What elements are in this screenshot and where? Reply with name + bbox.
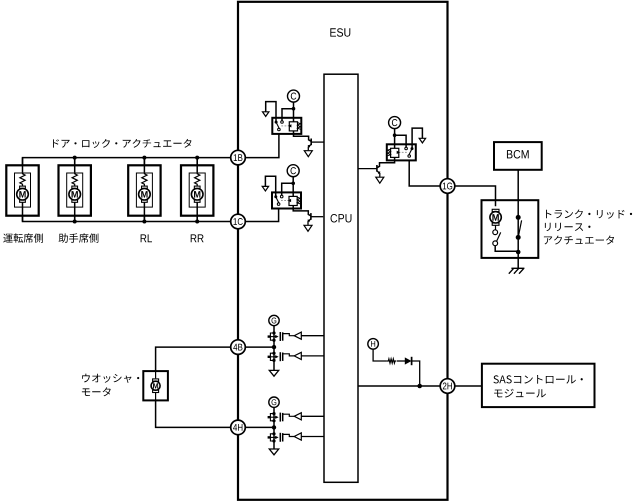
wire: relay K1 coil supply from C xyxy=(282,102,294,122)
relay K3 case xyxy=(387,144,416,160)
wire: M4 motor to bottom bus xyxy=(196,202,198,221)
trunk terminal (top) xyxy=(516,215,521,220)
transistor at relay K2 xyxy=(307,213,323,225)
connector 1G xyxy=(440,179,455,194)
junction 4B node xyxy=(272,345,276,349)
label RR xyxy=(191,234,204,242)
connector 4H label xyxy=(233,424,242,431)
washer motor M xyxy=(151,379,160,393)
washer motor M letter xyxy=(153,383,158,388)
trunk lid release actuator case xyxy=(482,200,539,258)
trunk terminal (bottom) xyxy=(516,250,521,255)
connector 1B xyxy=(231,150,246,165)
trunk switch blade xyxy=(518,220,521,237)
wire: relay K3 coil to transistor xyxy=(377,157,395,167)
wire: H to resistor xyxy=(373,349,387,361)
trunk terminal (middle) xyxy=(516,235,521,240)
gate buffer U2 xyxy=(283,352,324,359)
door lock actuator M4: outer case xyxy=(181,165,213,215)
relay K1 coil xyxy=(288,122,301,131)
door lock actuator M1: inner box xyxy=(15,173,31,207)
wire: G group 4B vertical xyxy=(273,326,275,371)
wire: door lock top bus to 1B xyxy=(23,158,232,165)
junction on top bus xyxy=(73,156,77,160)
ESU enclosure box xyxy=(238,2,448,500)
terminal C at relay K2 label xyxy=(290,167,295,174)
junction at 2H branch xyxy=(417,384,422,389)
SAS control module box xyxy=(482,364,595,407)
wire: diode to 2H node xyxy=(411,361,419,386)
door lock actuator M2: motor M letter xyxy=(72,191,78,198)
door lock actuator M3: inner box xyxy=(136,173,152,207)
label BCM xyxy=(507,150,529,159)
terminal G at 4H group label xyxy=(272,399,277,405)
connector 4B xyxy=(231,340,246,355)
chassis arrow under transistor K1 xyxy=(304,151,312,157)
chassis arrow under 4H group xyxy=(269,449,278,455)
door lock actuator M4: inner box xyxy=(189,173,205,207)
relay K2 contact pins xyxy=(274,195,283,205)
diode D1 xyxy=(405,357,412,365)
terminal H label xyxy=(371,341,375,347)
connector 1C label xyxy=(233,218,242,225)
wire: relay K3 coil supply from C xyxy=(395,129,407,149)
wire: washer motor to 4H xyxy=(156,400,231,427)
label trunk lid release line2 xyxy=(545,223,591,231)
wire: trunk motor to switch xyxy=(495,225,497,230)
wire: relay K2 coil supply from C xyxy=(282,177,294,197)
door lock actuator M3: resistor xyxy=(142,172,147,186)
relay K1 contact pins xyxy=(275,121,284,131)
wire: actuator stub at x=197.2 xyxy=(196,158,198,222)
wire: relay K3 pin to chassis xyxy=(412,128,422,148)
label SAS control module line1 xyxy=(493,375,582,384)
relay K1 armature link xyxy=(281,125,288,127)
door lock actuator M4: resistor xyxy=(195,172,200,186)
wire: M3 motor to bottom bus xyxy=(143,202,145,221)
wire: 4B into ESU xyxy=(245,346,274,348)
door lock actuator M4: motor M xyxy=(191,186,203,202)
terminal G at 4H group xyxy=(269,397,279,407)
connector 2H label xyxy=(443,383,452,390)
label door lock actuator xyxy=(53,139,192,148)
connector 1G label xyxy=(443,183,452,190)
MOSFET Q7 xyxy=(268,432,283,442)
door lock actuator M1: resistor xyxy=(20,172,25,186)
MOSFET Q4 xyxy=(268,331,283,341)
chassis arrow at relay K1 xyxy=(263,112,269,117)
wire: washer motor internal xyxy=(155,371,157,400)
wire: 2H to SAS module xyxy=(455,385,482,387)
label ESU xyxy=(330,28,350,37)
junction at relay K2 coil supply xyxy=(291,182,295,186)
terminal C at relay K3 label xyxy=(392,119,397,126)
gate buffer U4 xyxy=(283,433,324,440)
wire: door lock bottom bus to 1C xyxy=(23,216,232,222)
relay K3 contact pins xyxy=(405,147,414,157)
washer motor case xyxy=(143,371,168,400)
door lock actuator M3: motor M xyxy=(139,186,151,202)
door lock actuator M2: resistor xyxy=(72,172,77,186)
door lock actuator M3: outer case xyxy=(128,165,160,215)
trunk switch contacts xyxy=(493,230,501,246)
relay K2 case xyxy=(272,192,301,208)
chassis arrow under transistor K2 xyxy=(304,225,312,231)
label CPU xyxy=(331,214,352,223)
junction on top bus xyxy=(195,156,199,160)
door lock actuator M1: motor M xyxy=(17,186,29,202)
door lock actuator M1: outer case xyxy=(6,165,38,215)
wire: G group 4H vertical xyxy=(273,407,275,449)
gate buffer U1 xyxy=(283,332,324,339)
label trunk lid release line3 xyxy=(544,236,614,245)
transistor at relay K1 xyxy=(308,139,324,151)
label passenger side xyxy=(59,233,99,243)
connector 2H xyxy=(440,379,455,394)
label washer motor line2 xyxy=(82,387,111,396)
wire: 1G to trunk motor xyxy=(455,186,496,206)
wire: 4H into ESU xyxy=(245,426,274,428)
chassis arrow at relay K3 xyxy=(419,138,425,143)
junction on top bus xyxy=(142,156,146,160)
wire: relay K3 contact to 1G xyxy=(409,161,440,187)
terminal H xyxy=(368,339,379,350)
wire: M3 top bus to resistor xyxy=(143,158,145,173)
relay K1 case xyxy=(272,118,301,134)
terminal C at relay K2 xyxy=(287,165,299,177)
door lock actuator M2: motor M xyxy=(69,186,81,202)
BCM box xyxy=(494,142,542,170)
wire: M2 top bus to resistor xyxy=(74,158,76,173)
wire: actuator stub at x=144.4 xyxy=(143,158,145,222)
connector 4H xyxy=(231,420,246,435)
door lock actuator M4: motor M letter xyxy=(194,191,200,198)
relay K3 armature link xyxy=(400,151,407,153)
terminal G at 4B group label xyxy=(272,317,277,323)
junction at relay K3 coil supply xyxy=(393,133,397,137)
wire: 1B to relay K1 contact xyxy=(245,134,279,158)
junction on bottom bus xyxy=(195,220,199,224)
door lock actuator M2: outer case xyxy=(59,165,91,215)
junction 4H node xyxy=(272,425,276,429)
wire: actuator stub at x=74.7 xyxy=(74,158,76,222)
trunk release motor M letter xyxy=(492,214,498,221)
wire: M1 motor to bottom bus xyxy=(22,202,24,221)
wire: relay K2 pin to chassis xyxy=(265,176,275,196)
connector 4B label xyxy=(233,344,242,351)
chassis arrow under transistor K3 xyxy=(376,177,384,183)
door lock actuator M3: motor M letter xyxy=(141,191,147,198)
wire: relay K1 coil to transistor xyxy=(294,131,312,141)
transistor at relay K3 xyxy=(359,165,381,177)
MOSFET Q5 xyxy=(268,352,283,362)
wire: relay K2 coil to transistor xyxy=(293,206,311,216)
wire: M2 motor to bottom bus xyxy=(74,202,76,221)
relay K2 armature link xyxy=(281,200,288,202)
gate buffer U3 xyxy=(283,413,324,420)
chassis arrow under 4B group xyxy=(269,370,278,376)
terminal C at relay K1 label xyxy=(291,93,296,100)
resistor R1 xyxy=(387,359,396,363)
junction at relay K1 coil supply xyxy=(292,107,296,111)
connector 1B label xyxy=(234,154,243,161)
wire: relay K1 pin to chassis xyxy=(266,102,276,122)
label trunk lid release line1 xyxy=(546,210,632,219)
wire: 1C to relay K2 contact xyxy=(245,209,279,222)
relay K3 coil xyxy=(388,148,401,157)
wire: M4 top bus to resistor xyxy=(196,158,198,173)
wire: trunk switch to common xyxy=(495,246,518,252)
wire: M1 top bus to resistor xyxy=(22,158,24,173)
junction on bottom bus xyxy=(142,220,146,224)
wire: resistor to diode xyxy=(397,360,405,362)
label RL xyxy=(141,234,152,242)
wire: washer motor to 4B xyxy=(156,347,231,371)
label SAS control module line2 xyxy=(494,389,546,398)
earth ground at trunk xyxy=(509,268,525,273)
connector 1C xyxy=(231,214,246,229)
wire: trunk common vertical xyxy=(517,217,519,268)
relay K2 coil xyxy=(288,196,301,205)
terminal G at 4B group xyxy=(269,315,279,325)
door lock actuator M2: inner box xyxy=(67,173,83,207)
door lock actuator M1: motor M letter xyxy=(19,191,25,198)
wire: BCM to trunk actuator xyxy=(517,170,519,218)
CPU box xyxy=(324,74,358,482)
chassis arrow at relay K2 xyxy=(262,186,268,191)
label washer motor line1 xyxy=(82,374,139,383)
wire: CPU to 2H xyxy=(359,385,441,387)
label driver side xyxy=(3,233,43,243)
terminal C at relay K3 xyxy=(389,117,401,129)
trunk release motor M xyxy=(490,209,501,225)
MOSFET Q6 xyxy=(268,412,283,422)
junction on bottom bus xyxy=(73,220,77,224)
terminal C at relay K1 xyxy=(288,90,300,102)
